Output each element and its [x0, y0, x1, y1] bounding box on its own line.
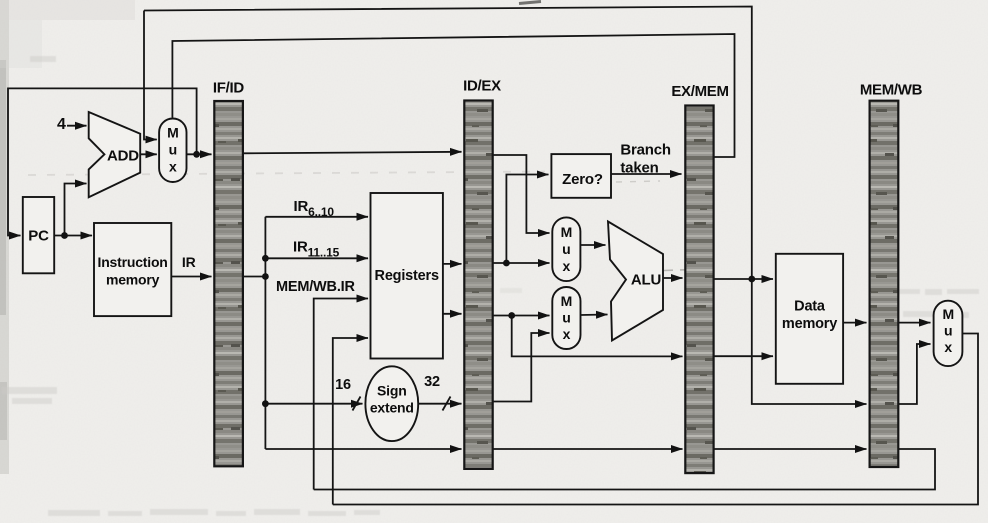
wire Branch taken: Zero? into EX/MEM [611, 173, 682, 175]
svg-text:taken: taken [620, 160, 658, 177]
wire Registers read port A into ID/EX [443, 263, 462, 265]
svg-text:IF/ID: IF/ID [213, 80, 244, 97]
node PC output junction [61, 232, 68, 239]
alu ALU [608, 222, 663, 341]
wire B value from ID/EX into Mux2 upper input [493, 315, 550, 317]
svg-text:M: M [167, 125, 178, 141]
wire immediate from ID/EX into Mux2 lower input [493, 333, 550, 402]
svg-text:x: x [563, 258, 571, 274]
svg-text:u: u [169, 142, 177, 158]
memory: Instruction memory [94, 223, 171, 316]
wire Mux1 output into ALU [580, 244, 605, 246]
wire branch-taken feedback: EX/MEM up over top into Mux select (top) [172, 34, 734, 157]
wire outer feedback: EX/MEM ALU value across top, and down past memory into MEM/WB [144, 7, 867, 405]
svg-text:x: x [169, 159, 177, 175]
svg-text:Instruction: Instruction [98, 254, 168, 270]
register PC [23, 197, 54, 273]
svg-text:4: 4 [57, 116, 66, 133]
wire constant 4 into ADD [67, 125, 87, 127]
node A-value junction to Zero? [503, 260, 510, 267]
wire ALU result from EX/MEM into Data memory address [714, 278, 773, 280]
svg-text:x: x [563, 326, 571, 342]
svg-text:MEM/WB: MEM/WB [860, 82, 923, 99]
wire write-back value loop from right Mux along bottom [333, 334, 978, 505]
mux M1 (PC select) [159, 119, 186, 183]
wire Mux output into IF/ID [187, 153, 212, 155]
wire B value tap down into EX/MEM (store data) [512, 316, 683, 357]
scan artifact: top centre mark [519, 2, 541, 4]
svg-text:IR: IR [182, 254, 196, 270]
svg-text:Zero?: Zero? [562, 171, 603, 188]
wire PC tap up to ADD lower input [65, 184, 87, 236]
svg-text:PC: PC [28, 228, 49, 245]
svg-text:Registers: Registers [375, 268, 439, 284]
svg-text:memory: memory [782, 316, 837, 332]
node new-PC junction at Mux output [193, 151, 200, 158]
wire ADD output to Mux [140, 153, 157, 155]
wire Registers read port B into ID/EX [443, 313, 462, 315]
wire IR11..15 into Registers [265, 257, 368, 259]
wire PC-select feedback: mux output up and around to PC input [8, 88, 197, 235]
wire IR out of IF/ID to junction [243, 276, 266, 278]
svg-text:ALU: ALU [631, 272, 661, 289]
wire IR from ID/EX into EX/MEM [493, 448, 683, 450]
wire IR from EX/MEM into MEM/WB [714, 448, 867, 450]
svg-text:u: u [562, 241, 570, 257]
register file: Registers [371, 193, 443, 359]
wire A value from ID/EX into Mux1 lower input [493, 262, 550, 264]
svg-text:MEM/WB.IR: MEM/WB.IR [276, 279, 355, 295]
wire Mux2 output into ALU [581, 314, 608, 317]
wire IR: Instruction memory to IF/ID [171, 276, 211, 278]
scan artifact: dashed bleed line [28, 172, 545, 176]
wire A value tap up into Zero? [506, 175, 548, 264]
pipeline register ID/EX [464, 101, 492, 469]
wire NPC: IF/ID to ID/EX [243, 152, 462, 154]
wire loaded value from MEM/WB into right Mux upper input [898, 322, 930, 324]
wire ALU result into EX/MEM [663, 277, 683, 279]
memory: Data memory [776, 254, 843, 384]
wire MEM/WB.IR loop back along bottom [314, 449, 935, 490]
svg-text:Data: Data [794, 299, 826, 315]
wire MEM/WB.IR write-register into Registers [314, 299, 368, 490]
wire 16-bit immediate into Sign extend [265, 403, 362, 405]
unit Sign extend [365, 366, 418, 441]
mux M3 (ALU input 2) [552, 287, 580, 349]
node IR junction at IF/ID output [262, 273, 269, 280]
wire store data from EX/MEM into Data memory [714, 355, 773, 357]
svg-text:32: 32 [424, 374, 440, 390]
wire Data memory output into MEM/WB [843, 322, 866, 324]
svg-text:extend: extend [370, 400, 414, 416]
pipeline register MEM/WB [870, 101, 899, 467]
wire NPC from ID/EX down into Mux1 upper input [493, 155, 550, 233]
pipeline register EX/MEM [685, 106, 713, 474]
svg-text:u: u [562, 310, 570, 326]
svg-text:Sign: Sign [377, 383, 407, 399]
svg-text:ADD: ADD [107, 148, 139, 165]
node IR junction at sign-extend input [262, 400, 269, 407]
node IR junction upper [262, 255, 269, 262]
wire PC to Instruction memory [54, 235, 92, 237]
svg-text:M: M [942, 306, 953, 322]
wire IR distribution vertical [264, 217, 266, 449]
svg-text:memory: memory [106, 272, 160, 288]
wire ALU value from MEM/WB into right Mux lower input [898, 344, 930, 404]
pipeline register IF/ID [214, 101, 243, 466]
scan artifact: left edge strip [0, 0, 9, 474]
adder ADD [89, 112, 141, 197]
wire Sign extend 32-bit output into ID/EX [418, 403, 461, 405]
svg-text:16: 16 [335, 377, 351, 393]
wire branch target feedback into Mux upper input [144, 11, 157, 140]
svg-text:M: M [561, 224, 572, 240]
wire IR down the pipe into ID/EX [265, 448, 461, 450]
svg-text:EX/MEM: EX/MEM [671, 83, 728, 100]
node B-value junction to store path [508, 312, 515, 319]
node ALU-result junction at Data memory input [748, 276, 755, 283]
svg-text:Branch: Branch [620, 142, 671, 159]
bus width slash 32 [443, 397, 451, 411]
wire IR6..10 into Registers [265, 216, 368, 218]
svg-text:u: u [944, 323, 952, 339]
wire write-back data into Registers [333, 338, 368, 505]
svg-text:x: x [944, 339, 952, 355]
scan artifact: top-left grey [0, 0, 135, 20]
mux M2 (ALU input 1) [552, 217, 580, 281]
mux M4 (write-back select) [934, 301, 963, 366]
svg-text:ID/EX: ID/EX [463, 78, 501, 95]
bus width slash 16 [353, 397, 361, 411]
svg-text:M: M [561, 293, 572, 309]
comparator Zero? [551, 154, 611, 198]
